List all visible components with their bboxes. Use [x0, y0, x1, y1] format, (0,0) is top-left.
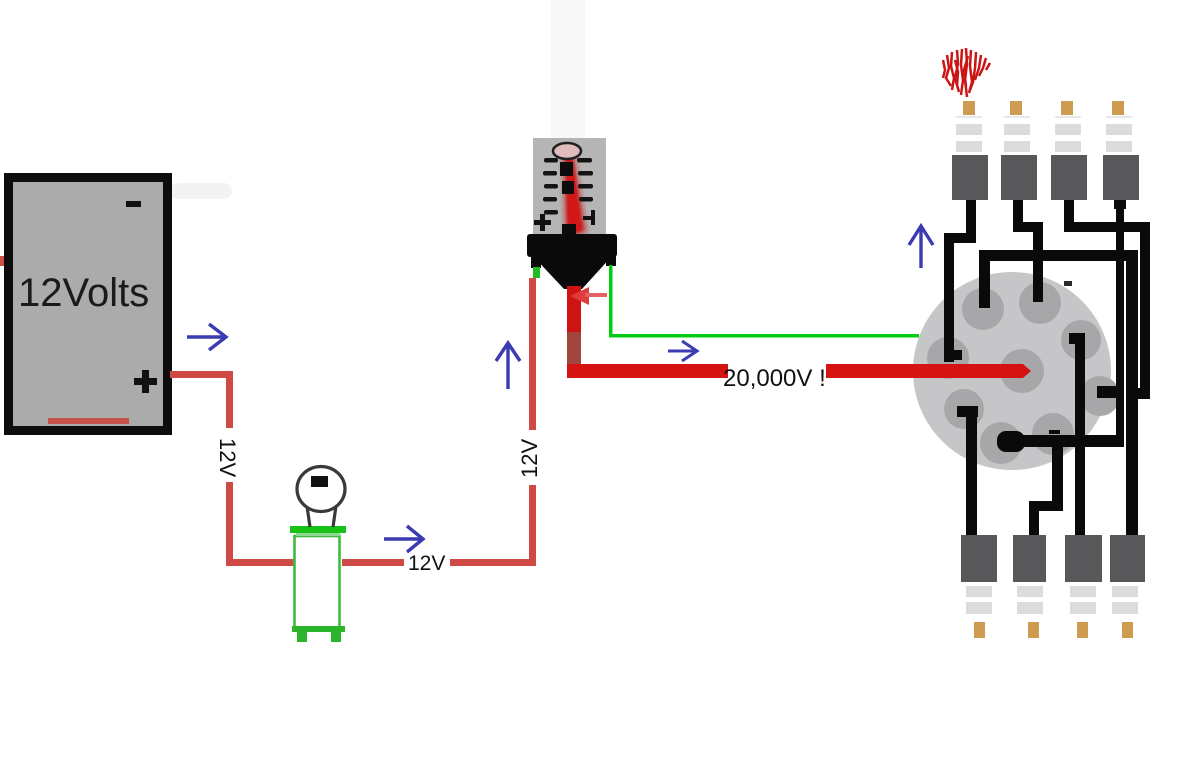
HT lead darker segment	[567, 332, 581, 374]
spark plug 3 bottom	[1065, 535, 1102, 638]
distributor cap	[913, 272, 1111, 470]
tower bottom-left	[944, 389, 984, 429]
coil left terminal green bit	[533, 267, 540, 278]
arrow right of battery	[187, 324, 226, 350]
stub into right tower	[1097, 386, 1123, 398]
coil right terminal nub	[606, 254, 616, 266]
svg-text:12V: 12V	[215, 438, 240, 477]
smudge near battery top right	[170, 183, 232, 199]
bottom plug 4 body dash	[1124, 541, 1135, 546]
label 12V rotated right	[518, 430, 546, 485]
arrow above switch	[384, 526, 423, 552]
HT lead thick red vertical	[567, 286, 581, 378]
coil plus mark	[534, 220, 551, 225]
svg-text:12V: 12V	[517, 439, 542, 478]
label 12V rotated left	[216, 428, 242, 482]
coil top ellipse	[553, 143, 581, 159]
spark plug 1 bottom	[961, 535, 997, 638]
long right vertical to bottom plug 4	[1126, 250, 1138, 536]
wire vertical down from battery	[226, 371, 233, 566]
cap cross wire upper	[979, 250, 1137, 308]
svg-text:12Volts: 12Volts	[18, 271, 149, 315]
spark plug 2 top	[1001, 101, 1037, 200]
coil left terminal nub	[531, 256, 541, 268]
coil winding teeth right	[577, 158, 593, 202]
red artifact inside battery bottom	[48, 418, 129, 424]
svg-text:20,000V !: 20,000V !	[723, 365, 826, 392]
battery minus terminal mark	[126, 201, 141, 207]
cap cross wire lower	[997, 430, 1124, 452]
coil red glow	[563, 150, 586, 238]
HT lead thick red horizontal into cap	[826, 364, 1023, 378]
wire corner to switch	[226, 559, 294, 566]
red annotation arrow at coil tip	[570, 287, 589, 305]
switch bottom bar	[292, 626, 345, 632]
arrow up near coil	[496, 343, 520, 389]
smudge above coil	[551, 0, 585, 142]
key head circle	[297, 467, 345, 512]
small tick near top tower	[1064, 281, 1072, 286]
arrow up near distributor	[909, 226, 933, 268]
green wire horizontal to distributor	[609, 334, 919, 338]
wire riser up to coil	[529, 278, 536, 566]
tower right	[1080, 376, 1120, 416]
tower center	[1000, 349, 1044, 393]
arrow on HT lead	[668, 341, 697, 361]
tower bottom	[980, 422, 1022, 464]
wire label to coil riser	[450, 559, 535, 566]
switch foot right	[331, 631, 341, 642]
coil winding teeth left	[543, 158, 558, 215]
coil body gray box	[533, 138, 606, 234]
plug wire 3 drop	[1064, 200, 1150, 399]
switch green cap	[290, 526, 346, 533]
bottom plug wire 3	[1069, 333, 1085, 536]
tower top-right	[1061, 320, 1101, 360]
tower bottom-right	[1032, 413, 1074, 455]
tower top	[1019, 282, 1061, 324]
plug wire 2 drop	[1013, 198, 1043, 302]
coil core blocks	[560, 162, 573, 176]
switch foot left	[297, 631, 307, 642]
coil funnel	[533, 256, 612, 289]
tower top-left	[962, 288, 1004, 330]
switch cap lower line	[296, 533, 340, 536]
red artifact left edge	[0, 256, 4, 266]
bottom plug wire 2	[1029, 445, 1063, 536]
bottom plug wire 1	[957, 406, 978, 536]
tower left	[927, 337, 969, 379]
green wire down from coil	[609, 265, 613, 336]
plug wire 1 drop	[944, 198, 976, 362]
HT lead thick red horizontal left part	[567, 364, 728, 378]
key shank	[307, 506, 336, 527]
wire switch to 12V label	[342, 559, 404, 566]
key head hole	[311, 476, 328, 487]
plug wire 4 straight drop	[1114, 196, 1126, 443]
spark plug 1 top	[952, 101, 988, 200]
coil tower cap black	[527, 234, 617, 257]
wire battery+ to corner	[170, 371, 232, 378]
battery plus terminal mark	[134, 378, 157, 385]
spark plug 4 bottom	[1110, 535, 1145, 638]
coil minus mark	[591, 210, 595, 225]
battery B1 body	[9, 178, 168, 431]
spark plug 4 top	[1103, 101, 1139, 200]
spark plug 3 top	[1051, 101, 1087, 200]
spark plug 2 bottom	[1013, 535, 1046, 638]
ignition switch body	[295, 536, 340, 629]
spark burst at plug 1	[943, 48, 990, 97]
svg-text:12V: 12V	[408, 552, 445, 575]
